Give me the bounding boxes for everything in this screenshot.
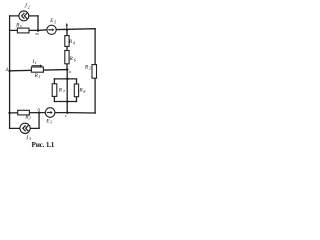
svg-text:3: 3 bbox=[50, 120, 52, 125]
svg-text:2: 2 bbox=[28, 4, 30, 9]
svg-text:c: c bbox=[65, 113, 67, 118]
svg-text:1: 1 bbox=[38, 74, 40, 79]
svg-text:1: 1 bbox=[35, 60, 37, 65]
svg-text:Рис. 1.1: Рис. 1.1 bbox=[32, 141, 55, 149]
svg-text:6: 6 bbox=[74, 57, 76, 62]
svg-text:8: 8 bbox=[83, 89, 85, 94]
svg-text:R: R bbox=[69, 56, 74, 62]
svg-text:4: 4 bbox=[73, 40, 75, 45]
svg-text:3: 3 bbox=[29, 116, 31, 121]
svg-text:2: 2 bbox=[89, 65, 91, 70]
svg-text:5: 5 bbox=[20, 24, 22, 29]
svg-text:5: 5 bbox=[54, 19, 56, 24]
